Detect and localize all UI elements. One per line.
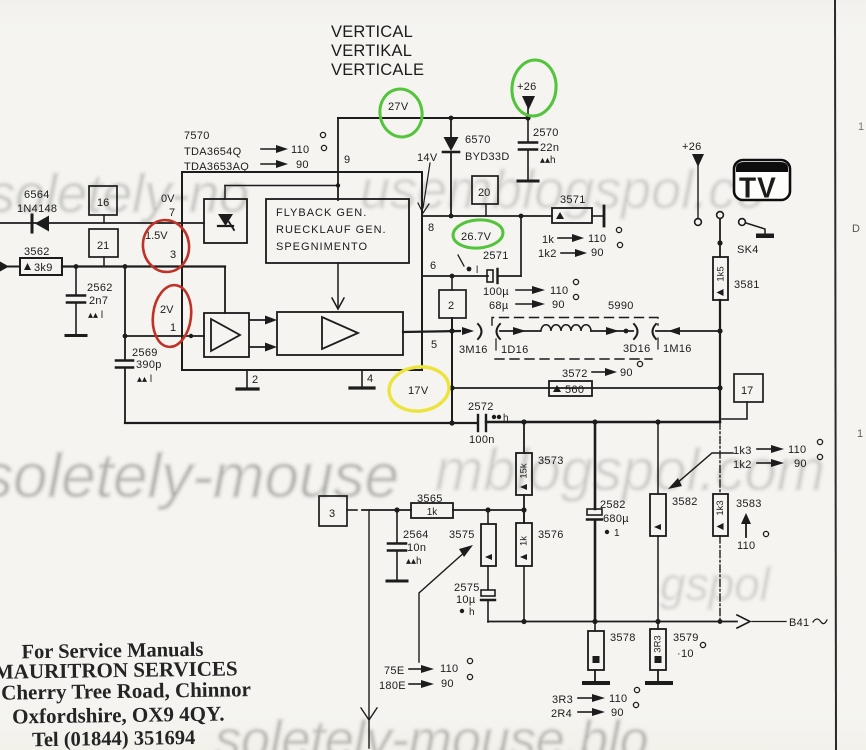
- pointer arrow from 1k3 values to 3582: [668, 453, 733, 489]
- svg-text:TV: TV: [739, 172, 777, 205]
- node pin5: [449, 328, 454, 333]
- svg-text:1k2: 1k2: [733, 459, 752, 471]
- capacitor 2562 2n7: [66, 267, 113, 336]
- svg-text:3578: 3578: [610, 632, 636, 644]
- pin 4 ground: [350, 370, 374, 388]
- svg-text:1N4148: 1N4148: [17, 203, 57, 215]
- svg-text:20: 20: [478, 187, 490, 199]
- svg-text:9: 9: [344, 154, 350, 166]
- wire pin 5 output: [403, 331, 460, 332]
- svg-text:3M16: 3M16: [459, 344, 488, 356]
- resistor 3572 560: [549, 381, 592, 396]
- coupling arrow upper between stages: [250, 316, 277, 325]
- svg-text:1k2: 1k2: [538, 248, 557, 260]
- node x720 delay: [717, 328, 722, 333]
- node 3573 top: [521, 419, 526, 424]
- svg-text:90: 90: [296, 159, 309, 171]
- box 21 test point: [89, 229, 118, 266]
- box 16 test point: [89, 186, 117, 223]
- box 3 test point: [319, 496, 357, 526]
- node pin1: [123, 334, 128, 339]
- node 3582 bottom: [655, 619, 660, 624]
- wire x=720 down from 3581: [719, 300, 721, 422]
- annotation green circle +26: [509, 58, 559, 118]
- node at 2562: [74, 264, 79, 269]
- svg-text:3k9: 3k9: [34, 262, 53, 274]
- svg-text:1.5V: 1.5V: [145, 230, 168, 242]
- arrow variant 90 (TDA3653AQ): [261, 145, 327, 171]
- variant values 180E 90: [379, 674, 473, 692]
- node x720 560row: [717, 385, 722, 390]
- wire pin 1 line: [125, 335, 204, 337]
- svg-text:6570: 6570: [465, 134, 491, 146]
- svg-text:SK4: SK4: [737, 244, 759, 256]
- switch SK4: [717, 212, 774, 257]
- svg-text:RUECKLAUF GEN.: RUECKLAUF GEN.: [276, 224, 387, 236]
- svg-text:2572: 2572: [468, 401, 494, 413]
- svg-text:1k3: 1k3: [733, 445, 752, 457]
- svg-text:2582: 2582: [600, 499, 626, 511]
- svg-text:110: 110: [550, 285, 568, 297]
- svg-text:3572: 3572: [562, 368, 588, 380]
- svg-text:90: 90: [611, 707, 624, 719]
- svg-text:2569: 2569: [132, 347, 158, 359]
- wire 3565 to 3573 node: [453, 509, 524, 511]
- capacitor 2582 680u: [587, 422, 629, 621]
- wire pin 3 line left: [7, 266, 20, 268]
- pot wiper arrow to 3575: [419, 545, 473, 662]
- TV logo: [734, 160, 790, 205]
- wire 3565 row: [362, 509, 411, 511]
- node 3583 bottom: [718, 619, 723, 624]
- svg-text:1D16: 1D16: [501, 344, 529, 356]
- svg-text:390p: 390p: [136, 359, 162, 371]
- inductor 5990 coil: [541, 325, 591, 331]
- svg-text:2562: 2562: [87, 282, 113, 294]
- svg-text:h: h: [469, 607, 475, 618]
- arrow right after coil: [606, 327, 619, 335]
- svg-text:100n: 100n: [469, 434, 495, 446]
- svg-text:4: 4: [367, 373, 373, 385]
- svg-text:90: 90: [794, 458, 807, 470]
- svg-text:0V: 0V: [161, 193, 175, 205]
- svg-text:D: D: [852, 223, 860, 235]
- svg-text:+26: +26: [517, 81, 537, 93]
- svg-text:26.7V: 26.7V: [461, 231, 492, 243]
- node before second connector: [624, 329, 629, 334]
- flyback generator block: [266, 199, 409, 263]
- input arrow pin 3 line: [0, 262, 9, 272]
- node 452-423: [449, 420, 454, 425]
- svg-text:22n: 22n: [540, 142, 559, 154]
- op-amp output stage box: [277, 312, 403, 355]
- wire pin 6: [422, 275, 488, 277]
- annotation red circle 1.5V pin3: [140, 217, 193, 275]
- svg-text:2: 2: [252, 374, 258, 386]
- svg-text:2: 2: [448, 300, 454, 312]
- box 17 test point: [722, 374, 763, 419]
- resistor 3583 1k3 dash-dot branch: [713, 422, 762, 621]
- svg-text:2R4: 2R4: [551, 708, 572, 720]
- node 2582 bottom: [592, 619, 597, 624]
- wire pin9 drop: [337, 118, 339, 200]
- node +26 top junction: [525, 115, 530, 120]
- svg-text:Cherry Tree Road, Chinnor: Cherry Tree Road, Chinnor: [1, 677, 251, 704]
- svg-text:VERTICALE: VERTICALE: [331, 61, 424, 79]
- variant values 68u 90: [489, 294, 579, 312]
- internal node wire pin9 to flyback: [225, 183, 340, 199]
- svg-text:90: 90: [620, 367, 633, 379]
- svg-text:14V: 14V: [417, 152, 438, 164]
- node 3571-2571: [519, 214, 524, 219]
- svg-text:90: 90: [591, 247, 604, 259]
- diode 6570 BYD33D: [443, 118, 510, 216]
- wire after inductor: [591, 330, 633, 332]
- wire feedback bus y=423 left: [125, 422, 476, 424]
- connector ) ( pair right: [634, 324, 656, 339]
- B41 open arrow and label: [737, 615, 827, 629]
- wire pin 3 line right: [62, 265, 225, 267]
- coupling arrow lower between stages: [250, 343, 277, 352]
- wire long drop from box3 row: [361, 510, 377, 748]
- svg-text:7: 7: [169, 207, 175, 219]
- svg-text:BYD33D: BYD33D: [465, 151, 510, 163]
- svg-text:17: 17: [741, 385, 753, 397]
- svg-text:110: 110: [737, 540, 755, 552]
- node 2564: [394, 507, 399, 512]
- wire pin 7 input line: [0, 222, 204, 224]
- capacitor 2571 (100u/68u): [458, 216, 521, 283]
- svg-text:8: 8: [428, 222, 434, 234]
- arrow right on output: [462, 327, 474, 335]
- capacitor 2569 390p: [116, 347, 162, 385]
- svg-text:▴▴h: ▴▴h: [540, 155, 556, 166]
- svg-text:5990: 5990: [608, 300, 634, 312]
- variant values 75E 110: [384, 658, 473, 677]
- arrow variant 110 (TDA3654Q): [261, 132, 326, 156]
- svg-text:6: 6: [430, 260, 436, 272]
- labels delay line sections: [459, 338, 692, 356]
- svg-text:1M16: 1M16: [663, 343, 692, 355]
- svg-text:110: 110: [788, 444, 806, 456]
- svg-text:110: 110: [291, 144, 309, 156]
- svg-text:SPEGNIMENTO: SPEGNIMENTO: [276, 241, 368, 253]
- svg-text:B41: B41: [789, 617, 809, 629]
- svg-text:3575: 3575: [449, 529, 475, 541]
- svg-text:15k: 15k: [519, 463, 530, 479]
- variant values 1k 110: [542, 227, 622, 246]
- svg-text:1: 1: [614, 528, 620, 539]
- svg-text:·10: ·10: [677, 648, 694, 660]
- pin labels left side: [145, 193, 176, 334]
- resistor 3573 15k: [516, 422, 564, 523]
- svg-text:2564: 2564: [403, 529, 429, 541]
- svg-text:680µ: 680µ: [603, 513, 629, 525]
- svg-text:7570: 7570: [184, 130, 210, 142]
- svg-text:3D16: 3D16: [623, 343, 651, 355]
- title VERTICAL: [331, 23, 424, 79]
- variant values 1k3 110: [733, 439, 823, 457]
- svg-text:+26: +26: [682, 141, 702, 153]
- svg-text:1k: 1k: [542, 234, 554, 246]
- resistor 3571: [552, 194, 604, 226]
- svg-text:100µ: 100µ: [483, 286, 509, 298]
- capacitor 2570 22n: [518, 118, 559, 181]
- variant values 3R3 110: [552, 687, 640, 706]
- node 2582 top: [592, 419, 597, 424]
- svg-text:68µ: 68µ: [489, 300, 509, 312]
- svg-text:▴▴h: ▴▴h: [406, 556, 422, 567]
- capacitor 2564 10n: [387, 510, 429, 581]
- svg-text:2570: 2570: [533, 127, 559, 139]
- variant values 1k2 90: [538, 242, 623, 260]
- svg-text:2n7: 2n7: [89, 295, 108, 307]
- svg-text:2V: 2V: [160, 304, 174, 316]
- wire 3572 row: [452, 387, 720, 389]
- svg-text:1: 1: [170, 322, 176, 334]
- svg-text:1k5: 1k5: [716, 266, 727, 281]
- svg-text:75E: 75E: [384, 665, 404, 677]
- svg-text:3R3: 3R3: [653, 635, 664, 652]
- supply +26 right arrow: [682, 141, 704, 225]
- arrow up 110 for 3583: [737, 513, 769, 552]
- border line right: [835, 0, 836, 750]
- resistor 3576 1k: [516, 510, 564, 622]
- node 3575 top: [485, 507, 490, 512]
- svg-text:▴▴ l: ▴▴ l: [88, 310, 103, 321]
- wire flyback to driver with open arrow: [332, 263, 344, 309]
- svg-text:5: 5: [431, 339, 437, 351]
- svg-text:21: 21: [97, 240, 109, 252]
- node 3576 bottom: [521, 619, 526, 624]
- box 2 test point: [439, 276, 466, 318]
- svg-text:soletely-mouse: soletely-mouse: [0, 442, 399, 511]
- svg-text:2575: 2575: [454, 582, 480, 594]
- wire bus x=452 down: [451, 318, 453, 423]
- annotation green circle 27V: [376, 86, 426, 141]
- variant values 100u 110: [483, 279, 579, 298]
- svg-text:3576: 3576: [538, 529, 564, 541]
- annotation green circle 26.7V: [452, 218, 504, 249]
- svg-text:gspol: gspol: [660, 558, 772, 610]
- supply +26 arrow (green circled): [517, 81, 537, 118]
- node 17V: [449, 385, 454, 390]
- op-amp IC 7570 outer box: [182, 172, 422, 370]
- wire pin3 internal drop to input stage: [224, 267, 226, 314]
- wire top 27V rail: [338, 117, 528, 119]
- resistor 3578: [584, 622, 636, 684]
- svg-text:VERTIKAL: VERTIKAL: [331, 42, 412, 60]
- wire feedback bus y=422 right: [486, 421, 720, 423]
- svg-text:3573: 3573: [538, 455, 564, 467]
- resistor 3562 3k9: [20, 246, 62, 275]
- svg-text:soletely-mouse.blo: soletely-mouse.blo: [215, 711, 649, 750]
- svg-text:2571: 2571: [483, 250, 509, 262]
- svg-text:110: 110: [588, 233, 606, 245]
- svg-text:FLYBACK GEN.: FLYBACK GEN.: [276, 207, 367, 219]
- svg-text:1k: 1k: [427, 507, 439, 518]
- svg-text:1: 1: [857, 428, 863, 440]
- 14V label with pointer to pin 8: [417, 152, 438, 213]
- svg-text:1k3: 1k3: [715, 500, 726, 515]
- resistor 3565 1k: [411, 493, 453, 518]
- thyristor block (protection): [204, 199, 247, 243]
- svg-text:3581: 3581: [734, 279, 760, 291]
- svg-text:90: 90: [552, 299, 565, 311]
- annotation yellow circle 17V: [387, 364, 451, 414]
- annotation red circle 2V pin1: [149, 283, 194, 349]
- svg-text:3579: 3579: [673, 632, 699, 644]
- variant values 2R4 90: [551, 702, 639, 720]
- svg-text:3583: 3583: [736, 498, 762, 510]
- svg-text:110: 110: [609, 693, 627, 705]
- svg-text:90: 90: [441, 678, 454, 690]
- op-amp input stage box: [204, 313, 249, 357]
- wire to x720: [656, 330, 720, 332]
- svg-text:3571: 3571: [560, 194, 586, 206]
- svg-text:3: 3: [170, 249, 176, 261]
- svg-text:Oxfordshire, OX9 4QY.: Oxfordshire, OX9 4QY.: [12, 702, 225, 729]
- svg-text:l: l: [476, 265, 478, 276]
- variant values 1k2 90: [733, 454, 823, 471]
- resistor 3579 3R3: [647, 622, 706, 684]
- box 20 test point: [472, 176, 498, 216]
- diode 6564 1N4148: [17, 189, 57, 232]
- delay line 5990 dashed box: [492, 318, 658, 360]
- svg-text:mblogspol.com: mblogspol.com: [435, 438, 825, 503]
- label 3572 variant 90: [562, 361, 643, 380]
- resistor 3581 1k5: [713, 257, 760, 300]
- wire B41 row: [488, 621, 737, 623]
- svg-text:TDA3654Q: TDA3654Q: [184, 146, 242, 158]
- pin labels right side: [428, 222, 437, 351]
- svg-text:VERTICAL: VERTICAL: [331, 23, 413, 41]
- svg-text:3R3: 3R3: [552, 694, 573, 706]
- node pin6-box2: [450, 274, 455, 279]
- svg-text:3: 3: [329, 508, 335, 520]
- svg-text:17V: 17V: [408, 385, 429, 397]
- capacitor 2572 100n: [468, 401, 509, 446]
- wire pin 8: [422, 215, 552, 217]
- arrow left end: [668, 327, 680, 335]
- node at 125: [123, 264, 128, 269]
- resistor 3582: [650, 422, 698, 621]
- svg-text:usemblogspol.co: usemblogspol.co: [360, 160, 765, 220]
- svg-text:1: 1: [858, 121, 864, 133]
- svg-text:10n: 10n: [407, 542, 426, 554]
- capacitor 2575 10u: [454, 582, 495, 622]
- svg-text:560: 560: [565, 384, 584, 396]
- svg-text:6564: 6564: [24, 189, 50, 201]
- wire drop x=125 to pin1: [124, 267, 126, 360]
- IC U7570 part labels: [184, 130, 249, 173]
- svg-text:Tel (01844) 351694: Tel (01844) 351694: [32, 727, 196, 750]
- svg-text:1k: 1k: [519, 536, 530, 546]
- node diode-pin8: [449, 214, 454, 219]
- arrow right mid: [513, 327, 526, 335]
- node 3582 top: [655, 419, 660, 424]
- node inside IC pin1: [189, 334, 193, 338]
- svg-text:27V: 27V: [388, 101, 409, 113]
- svg-text:3582: 3582: [672, 496, 698, 508]
- svg-text:110: 110: [440, 663, 458, 675]
- svg-text:16: 16: [97, 197, 109, 209]
- connector ) ( pair left: [478, 324, 500, 339]
- resistor 3575: [449, 510, 496, 589]
- svg-text:180E: 180E: [379, 680, 406, 692]
- svg-text:▴▴ l: ▴▴ l: [137, 374, 152, 385]
- svg-text:3562: 3562: [24, 246, 50, 258]
- node junction at diode 6570 top: [449, 116, 454, 121]
- node 3576 top: [521, 507, 526, 512]
- svg-text:10µ: 10µ: [456, 594, 476, 606]
- wire to inductor: [500, 330, 540, 332]
- pin 2 ground: [237, 370, 258, 389]
